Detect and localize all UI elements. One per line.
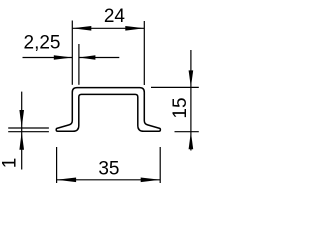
- dimension 35: dimension line: [57, 179, 161, 181]
- svg-text:2,25: 2,25: [24, 32, 61, 53]
- dimension 1: down-pointing arrowhead: [19, 110, 24, 128]
- dimension 1: upper extension line: [8, 127, 49, 129]
- dimension 24: right extension line: [143, 21, 145, 85]
- profile outline (hat channel cross-section): [56, 88, 160, 132]
- dimension 24: dimension line: [72, 27, 144, 29]
- dimension 35: right arrowhead: [141, 178, 161, 183]
- dimension 2,25: left dimension line segment: [23, 57, 73, 59]
- dimension 15: dimension line: [190, 50, 192, 151]
- svg-text:35: 35: [98, 158, 119, 179]
- dimension 24: right arrowhead: [125, 26, 144, 31]
- dimension 2,25: inner extension line: [78, 44, 80, 85]
- dimension 35: right extension line: [159, 147, 161, 183]
- svg-text:15: 15: [170, 97, 191, 118]
- dimension 24: left arrowhead: [72, 26, 91, 31]
- dimension 1: lower extension line: [8, 131, 49, 133]
- svg-text:24: 24: [104, 6, 126, 27]
- dimension 2,25: left-pointing arrowhead: [79, 55, 96, 59]
- svg-text:1: 1: [0, 158, 20, 169]
- dimension 35: left extension line: [56, 147, 58, 183]
- dimension 1: up-pointing arrowhead: [19, 132, 24, 150]
- dimension 24: left extension line: [71, 21, 73, 85]
- dimension 15: top extension line: [151, 86, 199, 88]
- dimension 15: down-pointing arrowhead: [189, 70, 194, 87]
- dimension 2,25: right-pointing arrowhead: [54, 55, 73, 60]
- dimension 35: left arrowhead: [57, 178, 77, 183]
- dimension 15: bottom extension line: [175, 131, 199, 133]
- dimension 1: dimension line: [21, 92, 23, 170]
- dimension 15: up-pointing arrowhead: [189, 132, 194, 150]
- dimension 2,25: right dimension line segment: [79, 57, 119, 59]
